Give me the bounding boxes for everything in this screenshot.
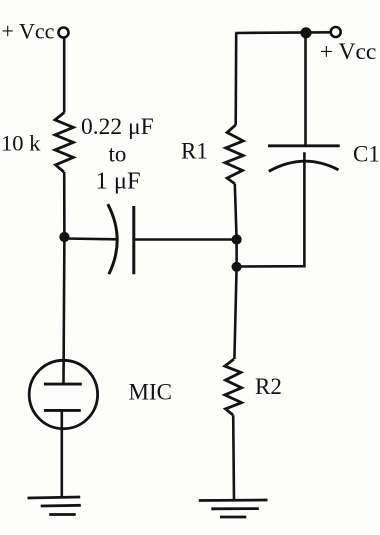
wire xyxy=(134,238,237,241)
wire xyxy=(234,33,237,125)
node junction dot left xyxy=(59,232,69,242)
wire xyxy=(64,237,116,240)
ground left bar 1 xyxy=(28,497,81,498)
wire (top rail) xyxy=(235,31,330,34)
svg-text:C1: C1 xyxy=(353,142,380,167)
node dot mid 2 xyxy=(232,262,242,272)
wire (C1 top lead) xyxy=(304,33,307,146)
resistor R1 xyxy=(225,125,243,184)
svg-text:0.22 μF: 0.22 μF xyxy=(81,114,154,140)
resistor R2 xyxy=(225,359,242,415)
svg-text:MIC: MIC xyxy=(129,380,172,405)
ground left bar 2 xyxy=(41,504,81,508)
wire xyxy=(234,267,236,359)
wire xyxy=(235,240,238,267)
wire xyxy=(235,184,237,240)
wire xyxy=(63,38,66,113)
svg-text:to: to xyxy=(109,142,127,167)
microphone MIC top plate xyxy=(44,383,82,386)
ground left bar 3 xyxy=(49,513,75,516)
capacitor C coupling (straight plate) xyxy=(132,206,135,274)
svg-text:R1: R1 xyxy=(181,139,208,164)
capacitor C1 top plate xyxy=(268,144,340,147)
capacitor C1 bottom plate (curved) xyxy=(269,161,339,171)
microphone MIC bottom plate xyxy=(44,409,81,412)
wire xyxy=(232,415,235,500)
wire xyxy=(237,152,305,266)
wire xyxy=(63,172,66,237)
svg-text:+ Vcc: + Vcc xyxy=(2,18,55,43)
capacitor C coupling (curved plate) xyxy=(108,204,117,274)
ground right bar 2 xyxy=(211,507,258,510)
wire xyxy=(60,410,63,497)
ground right bar 3 xyxy=(220,516,246,519)
svg-text:R2: R2 xyxy=(255,374,282,399)
svg-text:+ Vcc: + Vcc xyxy=(320,39,377,65)
node dot top rail xyxy=(300,27,311,38)
node dot mid 1 xyxy=(232,234,242,244)
svg-text:1 μF: 1 μF xyxy=(96,167,141,194)
wire xyxy=(62,237,66,384)
microphone MIC body xyxy=(29,360,97,428)
resistor R (10 k) xyxy=(55,113,73,173)
terminal +Vcc left xyxy=(59,28,69,38)
ground right bar 1 xyxy=(199,499,268,502)
terminal +Vcc right xyxy=(331,27,341,37)
svg-text:10 k: 10 k xyxy=(1,131,41,156)
